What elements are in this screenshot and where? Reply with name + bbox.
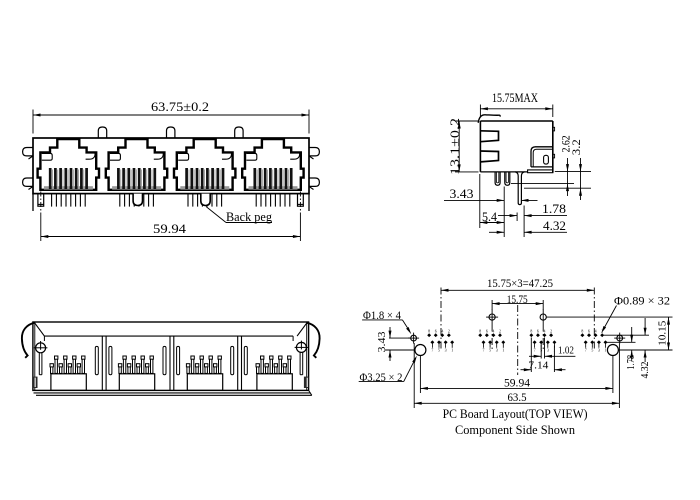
svg-text:3: 3 <box>445 349 447 353</box>
back peg 2 <box>201 194 210 206</box>
dimension 1.78 pcb <box>631 327 633 342</box>
front view right mounting post <box>308 194 310 211</box>
rear view screw rivet 2 <box>296 342 306 352</box>
back peg label <box>206 207 226 223</box>
RJ45 port 4 opening <box>242 139 303 190</box>
svg-text:8: 8 <box>530 330 532 334</box>
side view latch wedge 2 <box>480 151 498 162</box>
pcb small hole left <box>411 335 417 341</box>
back peg 1 <box>133 194 142 206</box>
svg-text:Component Side Shown: Component Side Shown <box>455 422 575 437</box>
svg-text:6: 6 <box>486 330 488 334</box>
rear view left spring wire <box>22 323 35 358</box>
svg-text:1: 1 <box>451 349 453 353</box>
side view seating flange <box>528 170 553 173</box>
front view top tab 1 <box>98 127 106 138</box>
side view shield spring curl <box>478 115 500 123</box>
pcb ref line from inner hole to 10.15 dim <box>546 316 672 318</box>
svg-text:3: 3 <box>598 349 600 353</box>
port 2 contact comb <box>117 168 120 189</box>
svg-text:2: 2 <box>499 330 501 334</box>
RJ45 port 1 opening <box>38 139 99 190</box>
pcb centerline group1 <box>440 288 442 351</box>
svg-text:3.2: 3.2 <box>569 139 583 155</box>
side view latch wedge 1 <box>480 131 498 142</box>
side view board lock post <box>531 147 553 167</box>
port 1 solder pins <box>51 194 53 207</box>
dimension 5.4 <box>479 174 481 228</box>
svg-text:5: 5 <box>438 349 440 353</box>
front view right EMI finger 2 <box>309 178 319 186</box>
front view right EMI finger 1 <box>309 148 319 156</box>
port 4 inner details <box>246 153 256 160</box>
port 3 solder pins <box>187 194 189 207</box>
svg-text:5: 5 <box>489 349 491 353</box>
svg-text:8: 8 <box>428 330 430 334</box>
pcb big hole right <box>607 345 618 356</box>
svg-text:5.4: 5.4 <box>482 210 498 224</box>
side view shield dimples <box>553 127 555 131</box>
front view body <box>33 138 309 194</box>
svg-text:2: 2 <box>448 330 450 334</box>
pcb ref line bottom pin row <box>605 341 635 343</box>
svg-text:8: 8 <box>581 330 583 334</box>
rear view pins module 1 <box>51 364 53 373</box>
svg-text:10.15: 10.15 <box>656 320 668 346</box>
svg-text:13.1±0.2: 13.1±0.2 <box>448 118 462 175</box>
rear view terminal block 2 <box>119 374 154 391</box>
rear view body <box>33 322 309 390</box>
dimension 15.75 pcb <box>491 300 493 310</box>
rear view terminal block 4 <box>257 374 292 391</box>
svg-text:8: 8 <box>479 330 481 334</box>
svg-text:4.32: 4.32 <box>639 362 651 379</box>
svg-text:7.14: 7.14 <box>528 360 549 372</box>
dimension 59.94 pcb <box>419 356 421 393</box>
svg-text:Back peg: Back peg <box>226 210 273 224</box>
port 4 contact comb <box>253 168 256 189</box>
svg-text:6: 6 <box>588 330 590 334</box>
rear view divider 2 <box>169 336 171 390</box>
port 1 contact comb <box>49 168 52 189</box>
svg-text:7: 7 <box>585 349 587 353</box>
dimension 1.02 <box>540 345 542 359</box>
rear view bottom-right foot <box>304 377 309 388</box>
pcb centerline group4 <box>593 288 595 351</box>
side view leg 1 <box>495 172 500 185</box>
rear view pins module 3 <box>187 364 189 373</box>
svg-text:63.75±0.2: 63.75±0.2 <box>151 99 209 114</box>
svg-text:2: 2 <box>550 330 552 334</box>
svg-text:3: 3 <box>496 349 498 353</box>
svg-text:1.78: 1.78 <box>542 202 566 216</box>
rear view divider 3 <box>237 336 239 390</box>
svg-text:7: 7 <box>431 349 433 353</box>
front view left EMI finger 1 <box>23 148 33 156</box>
rear view pins module 4 <box>257 364 259 373</box>
svg-text:15.75×3=47.25: 15.75×3=47.25 <box>487 278 553 290</box>
dimension 3.2 <box>524 187 591 189</box>
dimension 4.32 side view <box>489 231 504 233</box>
svg-text:4: 4 <box>441 330 443 334</box>
svg-text:4: 4 <box>544 330 546 334</box>
svg-text:3: 3 <box>547 349 549 353</box>
dimension 63.5 pcb <box>413 343 415 408</box>
dimension 2.62 <box>555 171 591 173</box>
dimension 15.75x3=47.25 <box>441 289 594 291</box>
pcb pin group 4 <box>580 333 584 337</box>
rear view screw rivet 1 <box>36 343 46 353</box>
rear view bottom-left foot <box>33 377 38 388</box>
port 3 contact comb <box>185 168 188 189</box>
pcb pin group 1 <box>427 333 431 337</box>
svg-text:7: 7 <box>534 349 536 353</box>
side view leg 2 <box>505 172 510 185</box>
svg-text:3.43: 3.43 <box>450 187 474 201</box>
front view top tab 2 <box>167 127 175 138</box>
front view left mounting post <box>32 194 34 211</box>
dimension 3.43 side view <box>503 187 505 238</box>
rear view terminal block 1 <box>51 374 86 391</box>
rear view pins module 2 <box>119 364 121 373</box>
svg-text:1.02: 1.02 <box>558 344 574 356</box>
rear view divider 1 <box>101 336 103 390</box>
svg-text:7: 7 <box>483 349 485 353</box>
dimension 10.15 <box>668 317 670 350</box>
front view left EMI finger 2 <box>23 178 33 186</box>
svg-text:15.75: 15.75 <box>507 294 528 306</box>
pcb big hole left <box>415 345 426 356</box>
dimension 59.94 front view <box>40 192 42 214</box>
pcb central axis centerline <box>517 305 519 375</box>
RJ45 port 2 opening <box>106 139 167 190</box>
port 4 solder pins <box>255 194 257 207</box>
side view long solder pin <box>515 172 525 205</box>
pcb small hole right <box>617 335 623 341</box>
svg-text:59.94: 59.94 <box>153 221 187 236</box>
pcb ref line top pin row <box>602 334 649 336</box>
svg-text:1: 1 <box>502 349 504 353</box>
svg-text:6: 6 <box>435 330 437 334</box>
pcb ref line big hole right <box>618 349 672 351</box>
rear view terminal block 3 <box>187 374 222 391</box>
svg-text:5: 5 <box>591 349 593 353</box>
front view top tab 3 <box>235 127 243 138</box>
port 1 inner details <box>42 153 52 160</box>
svg-text:4: 4 <box>492 330 494 334</box>
svg-text:4.32: 4.32 <box>543 219 566 233</box>
svg-text:Φ3.25 × 2: Φ3.25 × 2 <box>360 372 403 384</box>
RJ45 port 3 opening <box>174 139 235 190</box>
port 3 inner details <box>178 153 188 160</box>
side view body <box>480 120 552 122</box>
svg-text:3.43: 3.43 <box>376 331 388 353</box>
dimension 13.1±0.2 <box>455 120 479 122</box>
svg-text:59.94: 59.94 <box>504 377 530 389</box>
dimension 63.75±0.2 <box>32 110 34 134</box>
pcb inner hole right (port3) <box>540 314 546 320</box>
dimension 4.32 pcb <box>644 318 646 335</box>
svg-text:Φ0.89 × 32: Φ0.89 × 32 <box>614 295 670 307</box>
rear view right spring wire <box>307 323 320 358</box>
svg-text:1.78: 1.78 <box>625 354 637 369</box>
svg-text:15.75MAX: 15.75MAX <box>492 91 538 105</box>
pcb pin group 3 <box>529 333 533 337</box>
svg-text:4: 4 <box>595 330 597 334</box>
pcb pin group 2 <box>478 333 482 337</box>
port 2 solder pins <box>119 194 121 207</box>
svg-text:6: 6 <box>537 330 539 334</box>
rear view top plate <box>44 335 293 337</box>
dimension 15.75MAX <box>479 105 481 118</box>
pcb inner hole left (port2) <box>489 314 495 320</box>
port 2 inner details <box>110 153 120 160</box>
dimension 3.43 pcb <box>389 337 411 339</box>
svg-text:PC Board Layout(TOP VIEW): PC Board Layout(TOP VIEW) <box>443 406 588 421</box>
svg-text:1: 1 <box>605 349 607 353</box>
svg-text:63.5: 63.5 <box>508 392 527 404</box>
dimension 1.78 side view <box>516 213 518 222</box>
dimension 7.14 <box>530 338 532 373</box>
